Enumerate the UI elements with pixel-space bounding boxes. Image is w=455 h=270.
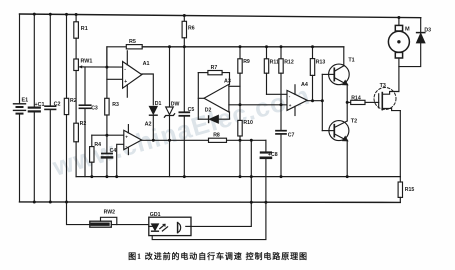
wire: RW2 feed from R2 line: [67, 202, 90, 224]
optocoupler GD1: [149, 212, 191, 236]
node: junctions on mid rail: [90, 175, 348, 178]
wire: T2 emitter down to mid rail: [346, 141, 348, 177]
wire: mid rail: [76, 176, 400, 178]
svg-text:M: M: [405, 27, 410, 33]
capacitor C5: [179, 47, 194, 177]
resistor R3 (chain below RW1): [74, 71, 87, 177]
resistor R10: [238, 105, 253, 177]
node: junctions on bottom rail: [33, 201, 268, 204]
svg-text:R12: R12: [284, 59, 294, 65]
svg-text:C7: C7: [288, 132, 295, 138]
svg-text:C3: C3: [91, 105, 98, 111]
svg-text:R14: R14: [351, 96, 361, 102]
svg-text:R13: R13: [316, 59, 326, 65]
svg-text:C4: C4: [110, 148, 117, 154]
svg-text:D2: D2: [205, 108, 212, 114]
capacitor C7: [276, 105, 295, 177]
resistor R15: [398, 177, 414, 203]
wire: T3 source down to mid rail: [399, 111, 401, 177]
op-amp A2: [124, 121, 152, 154]
svg-text:A4: A4: [301, 82, 308, 88]
svg-text:RW2: RW2: [104, 210, 116, 216]
svg-text:+: +: [289, 103, 292, 108]
svg-text:D1: D1: [155, 101, 162, 107]
resistor R14: [347, 96, 379, 105]
svg-text:www.chinaElec.com: www.chinaElec.com: [48, 80, 313, 182]
svg-text:R15: R15: [405, 187, 415, 193]
svg-text:DW: DW: [171, 102, 180, 108]
wire: base vertical T1/T2: [321, 74, 323, 130]
resistor R4 and capacitor C4 (A2 input RC): [90, 135, 117, 176]
svg-text:E1: E1: [22, 98, 29, 104]
wire: GD1 output to node vertical: [191, 225, 251, 227]
node: junctions on A3/A4 input line: [239, 103, 283, 106]
resistor R8: [209, 132, 227, 142]
potentiometer RW2: [90, 210, 149, 228]
wire: top supply rail: [20, 14, 421, 18]
svg-text:R10: R10: [243, 120, 253, 126]
wire: A1 output to D1: [142, 74, 154, 105]
svg-text:T3: T3: [380, 83, 386, 89]
svg-text:R4: R4: [94, 142, 101, 148]
svg-text:R11: R11: [270, 59, 279, 65]
capacitor C3: [79, 67, 98, 177]
svg-text:R5: R5: [129, 39, 136, 45]
svg-text:GD1: GD1: [150, 212, 161, 218]
svg-text:R8: R8: [213, 132, 220, 138]
node: RW1 wiper / A1 input junction: [105, 66, 108, 69]
svg-text:+C1: +C1: [35, 102, 45, 108]
svg-text:C2: C2: [54, 102, 61, 108]
wire: A1 lower input: [107, 78, 123, 80]
svg-text:+: +: [125, 135, 128, 140]
svg-text:图1 改进前的电动自行车调速 控制电路原理图: 图1 改进前的电动自行车调速 控制电路原理图: [128, 251, 308, 261]
resistor R1: [74, 15, 88, 39]
wire: A2 output node line to C8 corner: [142, 139, 209, 141]
svg-text:D3: D3: [424, 27, 431, 33]
svg-text:R9: R9: [243, 59, 250, 65]
op-amp A4: [287, 82, 308, 116]
node: junctions on A4 output / base drive: [311, 99, 349, 104]
resistor R6: [182, 16, 195, 47]
resistor R11: [264, 47, 279, 95]
potentiometer RW1: [74, 38, 93, 70]
op-amp A1: [123, 51, 150, 97]
op-amp A3 with feedback R7 and diode D2: [198, 65, 231, 123]
wire: A4 upper input: [267, 93, 288, 95]
capacitor C1: [29, 14, 45, 202]
node: A2 input junction: [105, 134, 108, 137]
wire: A4 output to transistor bases: [307, 100, 322, 102]
svg-text:R3: R3: [112, 102, 119, 108]
svg-text:R6: R6: [188, 25, 195, 31]
svg-text:A1: A1: [143, 61, 150, 67]
svg-text:C5: C5: [188, 107, 195, 113]
diode D3 (freewheel): [399, 18, 431, 67]
wire: A2 lower input: [117, 144, 124, 176]
transistor T2: [322, 118, 357, 140]
resistor R12: [279, 47, 294, 105]
resistor R4 (vertical, x106): [105, 47, 119, 135]
node: junctions on A2 output line: [152, 139, 253, 142]
wire: A3 upper input stub: [229, 85, 240, 87]
svg-text:+C8: +C8: [268, 152, 278, 158]
svg-text:A2: A2: [145, 121, 152, 127]
resistor R9: [238, 47, 250, 105]
wire: +V rail (y=47) from R5 to T1 collector: [142, 46, 344, 48]
capacitor C2: [45, 14, 61, 202]
svg-text:R1: R1: [81, 26, 88, 32]
resistor R13: [310, 47, 325, 101]
wire: T1 emitter / T2 collector node: [346, 85, 348, 121]
svg-text:T2: T2: [351, 118, 357, 124]
motor M: [388, 18, 410, 92]
wire: node line down to opto (x=251.3): [250, 140, 252, 225]
wire: A2 upper input: [92, 134, 124, 136]
svg-text:RW1: RW1: [81, 59, 93, 65]
resistor R2: [64, 14, 76, 202]
svg-text:+: +: [124, 79, 127, 85]
resistor R5 (A1 feedback): [107, 39, 142, 67]
wire: lower input line (A3 base to A4): [229, 104, 287, 106]
zener diode DW: [164, 47, 179, 177]
MOSFET T3: [374, 83, 400, 111]
battery E1: [14, 14, 29, 202]
node: junctions on top supply rail: [33, 13, 401, 19]
diode D1: [150, 101, 162, 140]
svg-text:T1: T1: [348, 58, 354, 64]
svg-text:R7: R7: [211, 65, 218, 71]
transistor T1: [322, 47, 354, 85]
capacitor C8 with GD1 bottom loop: [152, 140, 278, 239]
wire: RW1 wiper to A1 input: [83, 66, 123, 68]
wire: bottom rail: [20, 201, 401, 204]
node: junctions on +V rail (y=47): [168, 45, 314, 48]
